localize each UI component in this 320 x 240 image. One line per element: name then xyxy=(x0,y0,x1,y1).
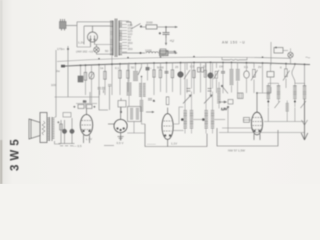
grid capacitor marks xyxy=(148,99,155,103)
resistor with wiper hang27 xyxy=(283,63,290,88)
svg-text:L 2V: L 2V xyxy=(86,137,92,141)
screen resistor above V4 xyxy=(166,97,169,105)
wire hang25 xyxy=(262,62,264,93)
resistor horizontal hang26 xyxy=(267,63,274,93)
arrow right row2 xyxy=(168,52,178,54)
interstage wires xyxy=(127,107,225,133)
capacitor hang22 xyxy=(221,62,225,94)
resistor hang12 xyxy=(159,63,162,92)
bus1 bypass dip with thermal fuse xyxy=(222,57,247,60)
resistor R2 xyxy=(160,51,169,56)
svg-text:~~ 0,5: ~~ 0,5 xyxy=(73,144,82,148)
grid components cluster xyxy=(58,113,75,146)
IF transformer T5 xyxy=(202,62,214,133)
grid feed component V5 xyxy=(243,118,251,123)
IF coil above xyxy=(127,63,132,107)
svg-text:1a: 1a xyxy=(100,66,104,70)
resistor R1 smoothing xyxy=(146,25,157,29)
svg-text:0,5 V: 0,5 V xyxy=(117,141,124,145)
wire hang3 xyxy=(98,64,100,95)
grid bias cluster above output tube xyxy=(74,100,98,109)
svg-text:1,5V: 1,5V xyxy=(221,107,227,111)
choke L1 xyxy=(146,52,158,54)
dropper resistor right xyxy=(271,42,288,65)
svg-text:3 W 5: 3 W 5 xyxy=(10,139,22,171)
IF tube V4 xyxy=(162,108,173,147)
curved wire hang28 xyxy=(292,63,296,83)
wire transformer bottom to choke xyxy=(122,52,145,54)
antenna transformer T7 xyxy=(293,83,306,121)
node bus2 left xyxy=(51,65,65,87)
wire outer loop top xyxy=(77,22,113,45)
coupling components above driver xyxy=(98,85,127,114)
coupling capacitor block xyxy=(160,49,177,57)
antenna down arrow xyxy=(301,99,308,140)
RF ground line xyxy=(264,121,305,123)
svg-text:50: 50 xyxy=(83,100,87,104)
svg-text:+U: +U xyxy=(170,39,175,43)
junction choke xyxy=(140,52,142,54)
resistor 0,1 hang6 xyxy=(118,63,121,95)
antenna feed wire xyxy=(304,64,306,86)
svg-text:+: + xyxy=(159,31,161,35)
node 175m xyxy=(57,47,69,51)
AVC line bottom xyxy=(219,132,305,134)
wave mark xyxy=(306,56,311,59)
junction node top xyxy=(165,26,167,28)
wire switch to resistor xyxy=(141,26,146,28)
grid choke comb xyxy=(217,82,220,109)
resistor hang7 xyxy=(126,64,129,92)
resistor 5000 hang11 xyxy=(153,62,156,95)
component value label row xyxy=(100,65,282,71)
wire hang5 xyxy=(111,48,113,95)
band switch xyxy=(221,85,228,93)
ground rail box1 xyxy=(145,124,207,147)
svg-text:(AM 162 ~U): (AM 162 ~U) xyxy=(76,50,93,54)
svg-text:2000: 2000 xyxy=(146,21,153,25)
transformer taps xyxy=(122,21,129,52)
svg-text:50: 50 xyxy=(105,49,109,53)
resistor hang1 xyxy=(84,64,87,95)
pot arm hang21 xyxy=(214,63,220,94)
oscillator coil pair xyxy=(230,62,240,93)
svg-text:1,2V: 1,2V xyxy=(78,41,84,45)
speaker field coil zigzag xyxy=(42,121,45,135)
bus1 +HT rail (curved scan warp) xyxy=(57,57,290,61)
resistor with wiper hang24 xyxy=(251,63,258,93)
capacitor hang13 xyxy=(165,62,169,93)
electrolytic can hang20 xyxy=(208,62,213,96)
electrolytic capacitor C1 xyxy=(159,27,170,38)
power transformer T1 secondary winding xyxy=(119,21,122,56)
junction above mixer xyxy=(256,92,258,94)
svg-text:1,1V: 1,1V xyxy=(171,142,177,146)
power transformer T1 primary winding xyxy=(110,21,113,56)
padder trimmer block xyxy=(238,93,244,99)
heater wire to lamp xyxy=(77,45,113,48)
capacitor pair hang18 xyxy=(198,63,204,93)
power transformer T1 core xyxy=(115,19,117,58)
loudspeaker cone xyxy=(29,119,40,139)
switch arm hang9 xyxy=(138,63,142,100)
coupling comb small xyxy=(286,101,289,122)
tap voltage labels xyxy=(128,23,133,51)
svg-text:25: 25 xyxy=(175,65,179,69)
svg-text:350: 350 xyxy=(128,47,133,51)
resistor hang4 xyxy=(103,64,106,95)
arrow +U down xyxy=(165,38,167,46)
left vertical feed wire xyxy=(67,46,69,97)
vertical wire x57 xyxy=(55,50,57,117)
mixer tube V5 xyxy=(251,93,262,140)
left edge shadow xyxy=(0,0,3,184)
oscillator transformer T6 xyxy=(267,83,281,121)
interstage coupling comb xyxy=(139,84,146,97)
mains input plug with fuse xyxy=(60,19,67,31)
svg-text:100: 100 xyxy=(51,83,56,87)
capacitor hang10 xyxy=(146,63,150,80)
svg-text:2V: 2V xyxy=(258,65,262,69)
wire comb to box1 xyxy=(142,112,146,125)
coupling coil hang8 xyxy=(133,63,138,81)
output tube V2 xyxy=(80,109,92,144)
resistor comb V4 grid feed xyxy=(140,101,144,112)
svg-text:NW 57 1,5W: NW 57 1,5W xyxy=(228,149,245,153)
dial lamp xyxy=(288,48,293,64)
svg-text:+: + xyxy=(58,120,60,124)
wires T2 to B+ xyxy=(55,117,61,144)
loudspeaker frame xyxy=(40,113,47,143)
svg-text:+: + xyxy=(94,105,96,109)
svg-text:AM 150 ~U: AM 150 ~U xyxy=(222,41,245,45)
ground hatches under driver xyxy=(104,145,114,147)
driver tube V3 xyxy=(108,107,127,140)
pot circle hang2 xyxy=(89,65,94,103)
pot circle hang23 xyxy=(244,62,250,93)
resistor hang19 xyxy=(204,62,206,77)
bus2 chassis rail (curved scan warp) xyxy=(62,62,310,66)
resistor hang14 xyxy=(171,63,174,92)
electrolytic can hang15 xyxy=(178,62,184,95)
IF transformer T3 xyxy=(128,107,142,122)
wire top rail audio xyxy=(55,92,100,109)
ground rail box2 xyxy=(217,128,278,146)
svg-text:0,1: 0,1 xyxy=(115,66,120,70)
mixer grid return wire xyxy=(222,106,252,132)
arrow +U right xyxy=(166,26,178,28)
arrow into IF stage xyxy=(146,111,155,113)
rectifier tube V1 xyxy=(88,26,98,47)
wire to +U node xyxy=(157,26,166,28)
svg-text:50: 50 xyxy=(131,66,135,70)
output transformer T2 xyxy=(48,117,55,141)
pilot lamp xyxy=(94,45,113,55)
resistor hang17 xyxy=(193,62,196,94)
bus1 junction dots xyxy=(98,56,263,60)
AVC components xyxy=(219,100,233,112)
pot block A xyxy=(78,65,83,83)
mains switch S1 xyxy=(126,22,142,29)
paper background xyxy=(0,0,320,184)
svg-text:~~~~~: ~~~~~ xyxy=(147,142,156,146)
wire mixer top right xyxy=(257,87,271,93)
wire mains to primary loop xyxy=(66,26,77,48)
pot arm hang16 xyxy=(184,63,190,94)
svg-text:175m: 175m xyxy=(57,47,65,51)
IF transformer T4 xyxy=(181,63,193,134)
svg-text:+: + xyxy=(74,105,76,109)
label AM162 U row xyxy=(76,49,109,54)
